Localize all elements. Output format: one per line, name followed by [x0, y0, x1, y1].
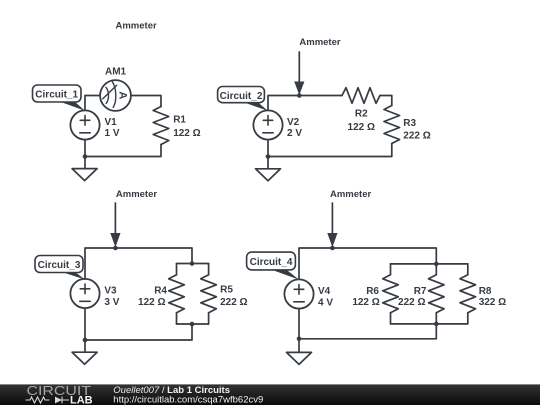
node junction — [434, 262, 439, 267]
svg-text:R2: R2 — [355, 109, 368, 120]
svg-text:Circuit_4: Circuit_4 — [250, 257, 293, 268]
svg-text:A: A — [117, 91, 129, 99]
svg-text:Circuit_2: Circuit_2 — [220, 91, 263, 102]
svg-text:122 Ω: 122 Ω — [138, 297, 165, 308]
node junction — [190, 261, 195, 266]
callout Circuit_4 — [247, 252, 299, 280]
label V1 value — [105, 117, 120, 139]
label R7 value — [398, 286, 427, 308]
svg-text:1 V: 1 V — [105, 128, 120, 139]
node junction — [190, 322, 195, 327]
label R1 value — [173, 114, 200, 138]
svg-text:V4: V4 — [318, 286, 331, 297]
voltage source V2 — [253, 110, 282, 139]
wire — [85, 96, 100, 111]
wire — [177, 323, 209, 325]
svg-text:122 Ω: 122 Ω — [352, 297, 379, 308]
wire — [131, 96, 161, 107]
svg-text:Ammeter: Ammeter — [116, 189, 157, 200]
svg-text:R8: R8 — [479, 286, 492, 297]
ammeter arrow — [327, 203, 337, 247]
wire — [299, 248, 436, 279]
svg-text:322 Ω: 322 Ω — [479, 297, 506, 308]
svg-text:222 Ω: 222 Ω — [220, 297, 247, 308]
ammeter arrow — [294, 52, 304, 95]
svg-text:Ammeter: Ammeter — [299, 37, 340, 48]
resistor R3 — [384, 106, 400, 144]
node junction — [266, 154, 271, 159]
wire — [268, 96, 342, 111]
svg-text:Circuit_1: Circuit_1 — [35, 90, 78, 101]
wire — [84, 308, 86, 340]
ammeter arrow — [110, 203, 120, 247]
wire — [85, 248, 192, 279]
svg-text:V1: V1 — [105, 117, 118, 128]
svg-text:R6: R6 — [366, 286, 379, 297]
svg-text:122 Ω: 122 Ω — [348, 122, 375, 133]
label R4 value — [138, 285, 167, 308]
callout Circuit_3 — [35, 256, 85, 280]
svg-text:Ammeter: Ammeter — [116, 21, 157, 32]
ground — [256, 157, 281, 181]
label R2 value — [348, 109, 375, 134]
voltage source V1 — [70, 110, 99, 139]
svg-text:222 Ω: 222 Ω — [398, 297, 425, 308]
ground — [72, 340, 97, 364]
node junction — [297, 337, 302, 342]
resistor R6 — [383, 264, 399, 324]
node junction — [83, 154, 88, 159]
resistor R1 — [153, 107, 169, 145]
ground — [287, 339, 312, 365]
svg-text:V3: V3 — [104, 285, 117, 296]
svg-text:3 V: 3 V — [104, 297, 119, 308]
svg-text:R1: R1 — [173, 114, 186, 125]
svg-text:R7: R7 — [414, 286, 427, 297]
resistor R8 — [460, 264, 476, 324]
wire — [391, 323, 468, 325]
label R3 value — [403, 118, 430, 142]
voltage source V4 — [284, 279, 313, 308]
logo schematic line (resistor + diode) — [26, 397, 70, 404]
label R6 value — [352, 286, 379, 308]
svg-text:Ammeter: Ammeter — [330, 189, 371, 200]
resistor R5 — [201, 264, 217, 325]
wire — [85, 145, 161, 157]
node junction — [434, 322, 439, 327]
wire — [298, 309, 300, 339]
label R5 value — [220, 284, 247, 307]
svg-text:AM1: AM1 — [105, 67, 127, 78]
callout Circuit_2 — [218, 87, 268, 111]
svg-text:4 V: 4 V — [318, 297, 333, 308]
node junction — [297, 93, 302, 98]
resistor R7 — [429, 264, 445, 324]
label R8 value — [479, 286, 506, 308]
node junction — [83, 338, 88, 343]
svg-text:V2: V2 — [287, 117, 300, 128]
ammeter AM1 — [100, 80, 131, 111]
svg-text:122 Ω: 122 Ω — [173, 128, 200, 139]
wire — [391, 263, 468, 265]
svg-text:R5: R5 — [220, 284, 233, 295]
resistor R4 — [169, 264, 185, 325]
svg-text:222 Ω: 222 Ω — [403, 131, 430, 142]
wire — [268, 144, 392, 157]
callout Circuit_1 — [33, 85, 86, 111]
wire — [177, 263, 209, 265]
label V3 value — [104, 285, 119, 308]
ground — [72, 157, 97, 181]
wire — [380, 96, 392, 106]
resistor R2 — [342, 88, 380, 104]
wire — [267, 140, 269, 157]
wire — [84, 140, 86, 157]
wire — [299, 324, 436, 339]
wire — [85, 324, 192, 340]
svg-text:Circuit_3: Circuit_3 — [38, 260, 81, 271]
label V2 value — [287, 117, 302, 139]
svg-text:R3: R3 — [403, 118, 416, 129]
voltage source V3 — [70, 279, 99, 308]
svg-text:http://circuitlab.com/csqa7wfb: http://circuitlab.com/csqa7wfb62cv9 — [113, 395, 263, 405]
node junction — [330, 246, 335, 251]
svg-text:R4: R4 — [154, 285, 167, 296]
node junction — [113, 246, 118, 251]
svg-text:LAB: LAB — [70, 395, 93, 405]
label V4 value — [318, 286, 333, 309]
svg-text:2 V: 2 V — [287, 128, 302, 139]
